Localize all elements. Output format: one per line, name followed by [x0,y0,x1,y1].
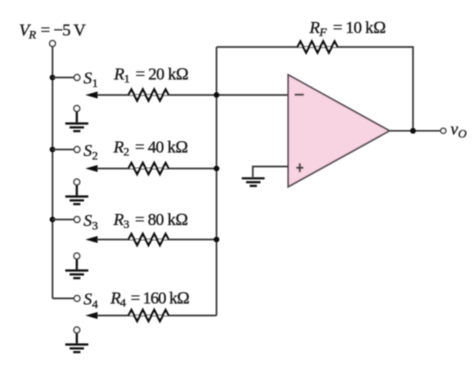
svg-text:R1 = 20 kΩ: R1 = 20 kΩ [113,65,188,86]
wire rail to S3 [53,219,74,221]
ground terminal circle under S2 [74,179,80,185]
switch S1 wiper arrow [85,92,97,99]
wire R2 to summing node [97,168,217,170]
resistor RF [298,42,338,53]
resistor R1 [129,90,169,101]
terminal vO [441,128,446,133]
wire R4 to summing node [97,315,217,317]
switch S1 contact [74,75,80,81]
wire op-amp output [390,130,441,132]
junction dot S2 branch [50,147,56,153]
junction dot summing node R2 [214,166,220,172]
switch S4 contact [74,295,80,301]
ground at op-amp plus input [242,178,265,186]
resistor R2 [129,163,169,174]
svg-text:R2 = 40 kΩ: R2 = 40 kΩ [113,138,188,159]
ground terminal circle under S4 [74,327,80,333]
op-amp U1 body [288,75,389,187]
junction dot S3 branch [50,217,56,223]
ground under S1 [65,112,88,131]
svg-text:S1: S1 [84,69,99,90]
wire rail corner to S4 [53,297,74,299]
ground under S3 [65,259,88,278]
wire left rail [52,47,54,299]
switch S2 wiper arrow [85,165,97,172]
op-amp minus sign [295,94,304,96]
svg-text:S3: S3 [84,211,99,232]
switch S2 contact [74,147,80,153]
wire R3 to summing node [97,239,217,241]
svg-text:R3 = 80 kΩ: R3 = 80 kΩ [113,210,188,231]
resistor R3 [129,234,169,245]
junction dot summing node R1 [214,92,220,98]
svg-text:S2: S2 [84,141,99,162]
wire summing node vertical [216,47,218,316]
wire rail to S2 [53,149,74,151]
switch S3 wiper arrow [85,236,97,243]
svg-text:RF = 10 kΩ: RF = 10 kΩ [309,18,386,39]
wire feedback top [217,47,414,131]
wire R1 to summing node and op-amp minus input [97,94,289,96]
svg-text:S4: S4 [84,290,99,311]
junction dot summing node R3 [214,237,220,243]
op-amp plus sign [296,163,303,172]
wire rail to S1 [53,77,74,79]
wire op-amp plus input to ground [253,167,289,178]
ground terminal circle under S3 [74,253,80,259]
svg-text:VR = −5 V: VR = −5 V [19,21,87,42]
junction dot S1 branch [50,75,56,81]
ground terminal circle under S1 [74,106,80,112]
svg-text:R4 = 160 kΩ: R4 = 160 kΩ [110,289,189,310]
junction dot output feedback [410,128,416,134]
switch S3 contact [74,217,80,223]
ground under S2 [65,185,88,204]
svg-text:vO: vO [451,120,468,141]
terminal VR [50,41,56,47]
ground under S4 [65,333,88,352]
resistor R4 [129,310,169,321]
switch S4 wiper arrow [85,312,97,319]
